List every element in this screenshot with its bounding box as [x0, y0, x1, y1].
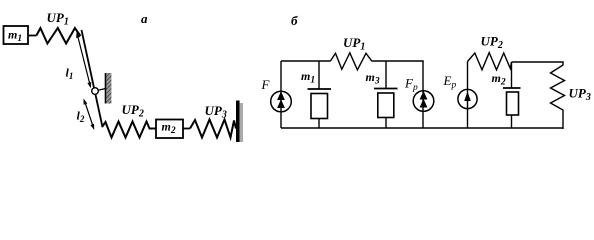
- svg-text:б: б: [291, 13, 298, 28]
- spring UP2 (mech): [102, 122, 156, 138]
- wire bottom rail: [281, 127, 563, 129]
- dimension l1: [76, 32, 91, 89]
- wire top rail F to UP1: [281, 60, 330, 62]
- current source Fp: [404, 61, 434, 128]
- part label b: [291, 13, 298, 28]
- capacitor m3 branch (mass analog): [366, 61, 398, 128]
- pivot: [92, 88, 99, 95]
- resistor UP3 (vertical): [551, 62, 565, 129]
- resistor UP1: [330, 53, 372, 70]
- label UP3 (circuit): [569, 86, 591, 104]
- spring UP1 (mech): [36, 28, 80, 44]
- pivot link to wall: [95, 89, 106, 92]
- dimension l2: [84, 99, 95, 131]
- resistor UP2: [468, 53, 512, 70]
- wall (pivot support, hatched): [106, 73, 112, 104]
- wire top rail UP2 to UP3: [512, 61, 564, 63]
- lever: [82, 30, 103, 127]
- svg-text:F: F: [261, 77, 271, 92]
- svg-text:а: а: [141, 11, 148, 26]
- label UP1 (circuit): [343, 35, 365, 53]
- capacitor m2 branch (mass analog): [492, 62, 521, 128]
- label UP2 (circuit): [481, 34, 503, 52]
- emf source Ep: [443, 62, 478, 129]
- label UP3 (mech): [205, 103, 227, 121]
- part label a: [141, 11, 148, 26]
- wire m2 to spring UP3: [183, 128, 190, 130]
- label l1: [66, 66, 74, 82]
- mass m2 (box): [156, 120, 183, 139]
- label UP2 (mech): [122, 102, 144, 120]
- wire m1 to spring: [28, 35, 36, 37]
- label UP1 (mech): [47, 10, 69, 28]
- mass m1 (box): [4, 26, 29, 44]
- wall (right anchor): [236, 101, 243, 143]
- current source F: [261, 61, 292, 128]
- wire top rail UP1 to Fp corner: [372, 60, 424, 62]
- capacitor m1 branch (mass analog): [301, 61, 331, 128]
- spring UP3 (mech): [190, 120, 236, 138]
- label l2: [77, 109, 85, 125]
